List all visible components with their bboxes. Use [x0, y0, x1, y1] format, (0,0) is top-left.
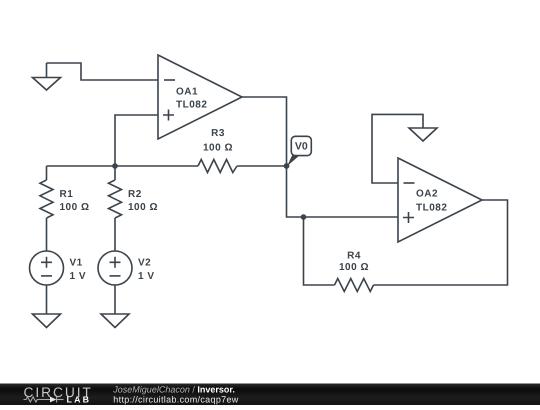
ground below V1 — [33, 285, 61, 328]
svg-text:OA2: OA2 — [416, 189, 438, 200]
CircuitLab logo — [24, 385, 93, 405]
svg-text:TL082: TL082 — [416, 203, 447, 214]
ground below V2 — [101, 285, 129, 328]
footer bar — [0, 384, 540, 406]
svg-text:http://circuitlab.com/caqp7ew: http://circuitlab.com/caqp7ew — [113, 394, 239, 404]
svg-text:V0: V0 — [295, 141, 308, 153]
wire GND1 to OA1 inverting input — [47, 63, 159, 80]
svg-text:R1: R1 — [60, 189, 74, 200]
label R2 100Ω — [128, 189, 158, 213]
svg-text:R4: R4 — [347, 251, 361, 262]
wire R3 to node V0 — [237, 165, 287, 167]
svg-text:100 Ω: 100 Ω — [203, 143, 233, 154]
svg-text:R2: R2 — [128, 189, 142, 200]
svg-text:OA1: OA1 — [176, 87, 198, 98]
wire OA1 output to node V0 — [242, 97, 287, 166]
label V2 1V — [138, 258, 155, 283]
label R3 100Ω — [203, 128, 233, 154]
wire node V0 to OA2 non-inverting input — [287, 166, 399, 217]
label V1 1V — [70, 258, 87, 283]
footer credit text — [112, 384, 239, 404]
svg-text:V1: V1 — [70, 258, 83, 269]
svg-text:100 Ω: 100 Ω — [339, 262, 369, 273]
voltage source V1 — [30, 251, 64, 285]
wire R4 to OA2 output feedback loop — [374, 200, 508, 285]
junction dot R4 tap — [301, 214, 307, 220]
resistor R3 — [198, 160, 237, 173]
svg-text:100 Ω: 100 Ω — [128, 202, 158, 213]
label OA1 / TL082 — [176, 87, 207, 111]
svg-text:TL082: TL082 — [176, 100, 207, 111]
svg-text:1 V: 1 V — [70, 271, 87, 282]
svg-text:100 Ω: 100 Ω — [60, 202, 90, 213]
svg-text:LAB: LAB — [67, 394, 92, 404]
resistor R1 — [40, 166, 53, 251]
svg-text:V2: V2 — [138, 258, 151, 269]
ground GND1 (OA1 inverting input reference) — [33, 63, 61, 90]
junction node at R2 top — [112, 163, 118, 169]
label OA2 / TL082 — [416, 189, 447, 214]
svg-text:R3: R3 — [211, 128, 225, 139]
op-amp OA2 — [398, 158, 482, 242]
wire OA2 inverting input to ground — [372, 114, 423, 183]
node V0 flag — [287, 136, 311, 166]
wire OA1 non-inverting input to input rail — [115, 115, 158, 166]
wire input rail (R1/R2 tops to R3) — [47, 165, 199, 167]
ground GND3 (OA2 inverting reference) — [409, 128, 437, 141]
wire R4 tap down to resistor — [304, 217, 335, 285]
op-amp OA1 — [158, 55, 242, 139]
label R4 100Ω — [339, 251, 369, 274]
label R1 100Ω — [60, 189, 90, 213]
svg-text:JoseMiguelChacon / Inversor.: JoseMiguelChacon / Inversor. — [112, 384, 235, 394]
resistor R4 — [335, 279, 374, 292]
svg-text:1 V: 1 V — [138, 271, 155, 282]
voltage source V2 — [98, 251, 132, 285]
junction node V0 dot — [284, 163, 290, 169]
resistor R2 — [109, 166, 122, 251]
